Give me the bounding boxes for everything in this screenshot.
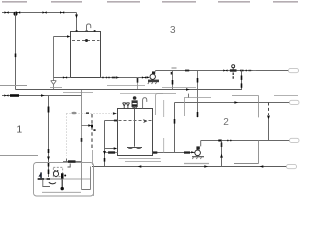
pipe main top right header — [156, 70, 290, 72]
wire vertical x48 — [48, 96, 50, 178]
valve V1 — [5, 11, 9, 13]
pump P2 discharge — [201, 141, 290, 147]
feed pipes into T2 — [105, 120, 118, 122]
valve V7 — [223, 69, 227, 71]
wire drop x174 — [174, 103, 176, 153]
pipe T2 outlet to pump P2 — [153, 152, 195, 154]
pipe bottom main header — [92, 166, 287, 168]
level line T2 — [119, 120, 152, 122]
internal bottom line — [42, 191, 81, 193]
grey pipe segments — [0, 85, 27, 87]
rounded unit enclosure — [34, 163, 94, 197]
tank T1 — [71, 32, 101, 78]
small indicator glyph — [38, 172, 41, 176]
vacuum pump P3 dashed box — [53, 167, 62, 176]
junction drop at 137 — [137, 78, 139, 90]
dashed drop with arrow — [268, 103, 270, 116]
filter F1 — [10, 94, 19, 97]
pipe distillate header — [175, 102, 291, 104]
funnel pair on T2 — [123, 103, 130, 109]
dotted enclosure — [66, 114, 68, 157]
wire vertical left main — [15, 13, 17, 90]
pump P1 — [148, 80, 159, 83]
arrow link to instrument line — [82, 125, 89, 127]
suction header — [63, 161, 82, 163]
vent gooseneck T2 — [143, 98, 147, 109]
valve V8 — [240, 70, 244, 72]
junction node — [14, 12, 18, 16]
valve V6 — [142, 76, 146, 78]
level line T1 — [72, 40, 100, 42]
L pipe under pump — [43, 180, 50, 187]
discharge valve bar — [61, 173, 64, 179]
valve V4 — [60, 11, 64, 13]
valve V3 — [43, 11, 47, 13]
arc under pump — [49, 182, 56, 184]
wire riser x221 — [221, 141, 223, 167]
instrument dashed vertical — [91, 114, 93, 148]
pipe long mid header — [16, 89, 242, 91]
valve V5 — [63, 76, 67, 78]
svg-text:1: 1 — [16, 124, 22, 136]
svg-text:2: 2 — [223, 117, 229, 128]
outlet nozzle N3 — [290, 138, 300, 142]
wire drop C — [241, 71, 243, 91]
pump P3 — [53, 171, 58, 176]
outlet nozzle N2 — [290, 100, 300, 104]
discharge down pipe — [61, 179, 63, 187]
valve V2 — [16, 11, 20, 13]
grey equipment outline A — [156, 94, 177, 115]
vent gooseneck T1 — [87, 24, 91, 32]
agitator shaft — [134, 107, 136, 147]
top dashed border — [2, 1, 298, 3]
agitator motor M1 — [133, 96, 137, 100]
tank T2 reactor — [118, 109, 153, 156]
pipe tank T1 bottom right to pump P1 — [101, 77, 149, 79]
grey elbow right — [234, 141, 259, 164]
grey stub pipes bottom center — [119, 158, 161, 160]
wire drop A — [172, 71, 174, 90]
funnel drain — [51, 78, 57, 90]
pipe top feed line — [2, 12, 77, 14]
small hook — [68, 164, 71, 168]
svg-text:3: 3 — [170, 25, 176, 36]
valve V9 — [4, 94, 8, 96]
outlet nozzle N4 — [287, 164, 297, 168]
pump P2 — [195, 150, 201, 156]
grey equipment outline B — [185, 98, 212, 117]
wire vertical x81 — [81, 90, 83, 190]
pipe tank T1 bottom left — [54, 77, 71, 79]
wire vertical x104 — [104, 121, 106, 167]
dashed grey vertical — [163, 100, 165, 153]
wire drop B — [197, 71, 199, 118]
wire riser into tank T1 — [76, 13, 78, 32]
outlet nozzle N1 — [289, 68, 299, 72]
U loop under pump — [82, 167, 91, 190]
pipe lower feed line — [2, 95, 82, 97]
recirculation loop left of T1 — [54, 37, 68, 78]
grey pipe right top — [232, 96, 259, 118]
suction pipe — [37, 178, 62, 180]
control valve CV1 — [230, 69, 237, 71]
